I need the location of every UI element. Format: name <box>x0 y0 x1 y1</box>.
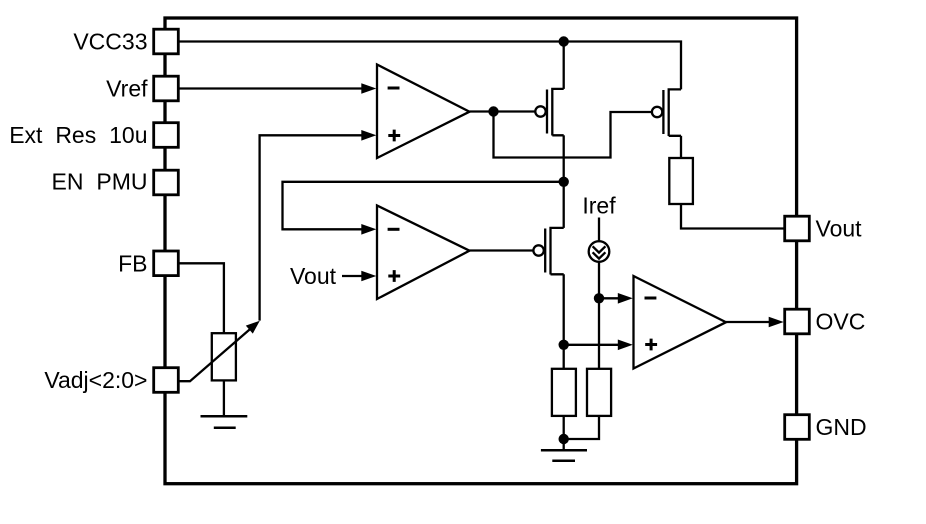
op-amp U1 <box>377 65 470 159</box>
wire Vref to U1 minus <box>179 87 364 89</box>
svg-text:Ext Res 10u: Ext Res 10u <box>9 122 147 148</box>
wire M3 source up <box>563 182 565 228</box>
wire trimmer wiper to U1 plus <box>260 135 363 320</box>
svg-text:OVC: OVC <box>816 309 866 335</box>
wire VCC33 rail <box>179 42 682 90</box>
wire node to U3 plus <box>564 344 619 346</box>
arrow U1 minus input <box>361 83 376 94</box>
wire U3 output to OVC <box>726 321 769 323</box>
transistor M1 <box>547 88 564 136</box>
arrow U2 minus input <box>361 224 376 235</box>
U3 minus symbol <box>645 297 657 300</box>
pin GND <box>785 415 810 440</box>
U2 minus symbol <box>388 228 400 231</box>
op-amp U2 <box>377 206 470 300</box>
transistor M1 gate bubble <box>535 106 545 116</box>
transistor M2 <box>663 88 681 136</box>
wire feedback to U2 minus <box>283 182 564 230</box>
wire FB to trimmer <box>179 263 224 333</box>
wire M1 source to rail <box>563 42 565 89</box>
wire trimmer to ground <box>223 380 225 416</box>
arrow U1 plus input <box>361 130 376 141</box>
node Iref junction <box>594 293 604 303</box>
current source I1 <box>589 241 610 262</box>
arrow OVC output <box>769 317 784 328</box>
chip outline <box>165 18 797 484</box>
current source I1 chevrons <box>593 246 606 258</box>
transistor M2 gate bubble <box>652 107 662 117</box>
arrow U3 plus input <box>618 340 633 351</box>
U2 plus symbol <box>388 270 400 282</box>
pin FB <box>154 251 179 276</box>
arrow trimmer wiper <box>246 321 260 334</box>
wire M2 drain to resistor R1 <box>680 136 682 158</box>
pin VCC33 <box>154 29 179 54</box>
svg-text:FB: FB <box>118 250 147 276</box>
wire U2 output to M3 gate <box>470 249 534 251</box>
resistor R2 <box>552 369 576 416</box>
ground G2 <box>541 450 587 460</box>
svg-text:Vadj<2:0>: Vadj<2:0> <box>44 367 147 393</box>
U1 minus symbol <box>388 87 400 90</box>
wire U1 output to M2 gate <box>494 112 652 158</box>
wire M1 drain down <box>563 135 565 182</box>
svg-text:Vout: Vout <box>816 216 863 242</box>
wire M3 drain down to resistor R2 <box>563 274 565 369</box>
wire R3 to ground node <box>564 416 599 439</box>
resistor R1 <box>669 158 693 204</box>
pin EN PMU <box>154 170 179 195</box>
wire Iref node to U3 minus <box>599 297 619 299</box>
pin Ext Res 10u <box>154 123 179 148</box>
resistor R3 <box>587 369 611 416</box>
wire Iref label to source <box>598 218 600 242</box>
svg-text:EN PMU: EN PMU <box>52 169 148 195</box>
ground G1 <box>201 416 248 427</box>
pin Vout <box>785 216 810 241</box>
transistor M3 gate bubble <box>533 245 543 255</box>
node feedback junction <box>559 177 569 187</box>
U3 plus symbol <box>645 339 657 351</box>
arrow U2 plus input <box>361 271 376 282</box>
op-amp U3 <box>634 276 727 369</box>
U1 plus symbol <box>388 130 400 142</box>
pin Vadj <box>154 368 179 393</box>
wire Vadj to wiper <box>179 327 253 381</box>
wire R1 to Vout pin <box>681 204 785 229</box>
svg-text:Vref: Vref <box>106 76 148 102</box>
svg-text:Vout: Vout <box>290 263 337 289</box>
node VCC junction <box>559 36 569 46</box>
svg-text:GND: GND <box>816 414 867 440</box>
trimmer resistor R4 <box>212 333 236 380</box>
arrow U3 minus input <box>618 293 633 304</box>
node U1 output junction <box>488 106 498 116</box>
svg-text:Iref: Iref <box>582 193 616 219</box>
wire U1 output to M1 gate <box>470 110 536 112</box>
wire R2 to ground <box>563 416 565 450</box>
svg-text:VCC33: VCC33 <box>73 29 147 55</box>
pin Vref <box>154 76 179 101</box>
wire I1 to resistor R3 <box>598 262 600 369</box>
transistor M3 <box>545 227 564 275</box>
node ground junction <box>559 434 569 444</box>
pin OVC <box>785 309 810 334</box>
wire Vout label to U2 plus <box>342 275 363 277</box>
node U3 plus junction <box>559 340 569 350</box>
